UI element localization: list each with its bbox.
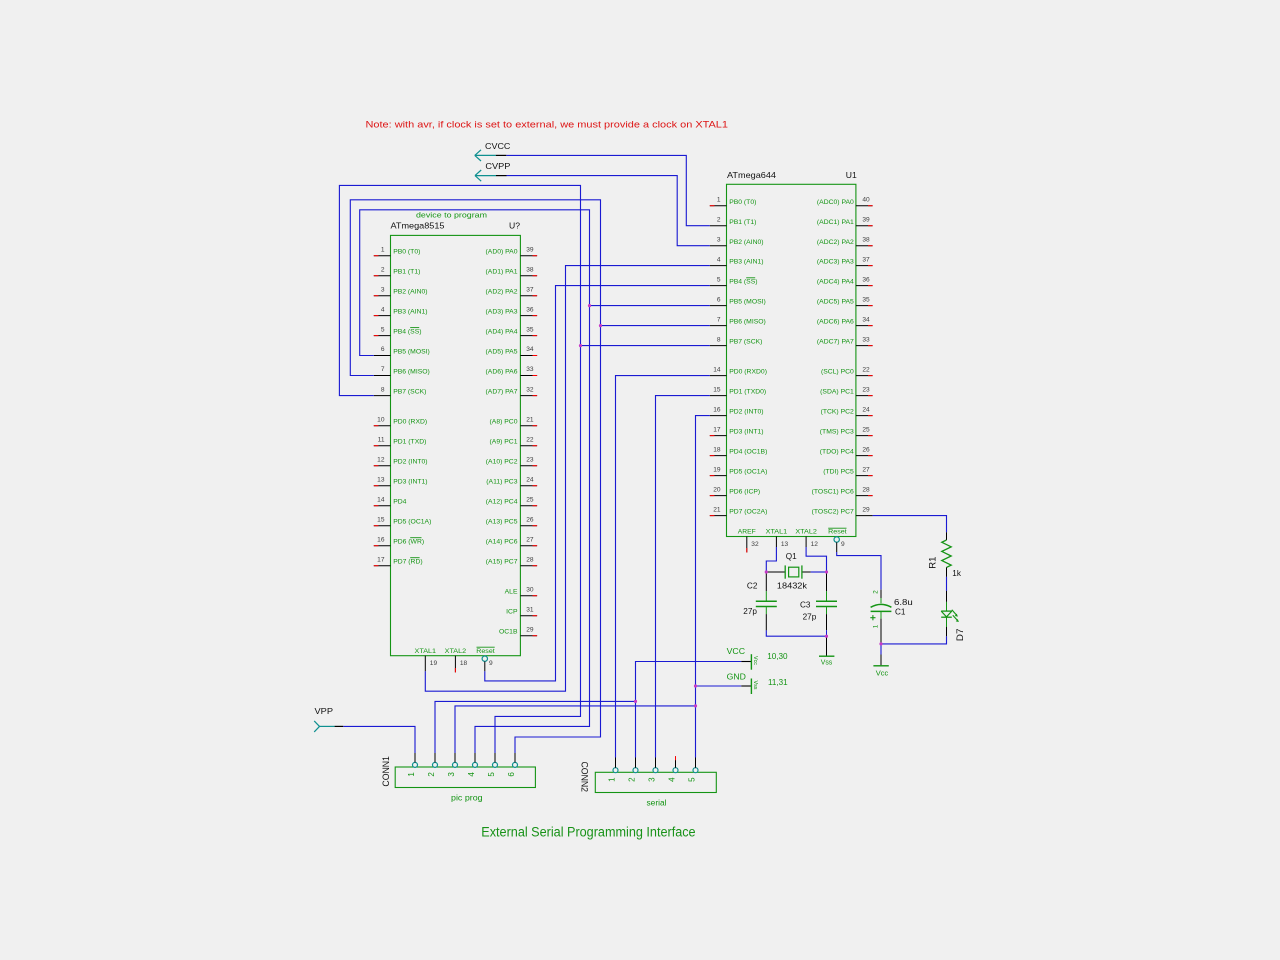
- svg-text:19: 19: [713, 466, 721, 473]
- svg-text:D7: D7: [955, 628, 965, 641]
- svg-text:XTAL2: XTAL2: [795, 529, 817, 536]
- svg-text:(ADC0) PA0: (ADC0) PA0: [817, 199, 854, 206]
- svg-text:(AD4) PA4: (AD4) PA4: [486, 329, 518, 336]
- svg-text:30: 30: [526, 586, 534, 593]
- svg-text:29: 29: [862, 506, 870, 513]
- svg-text:PB3 (AIN1): PB3 (AIN1): [729, 259, 763, 266]
- svg-text:32: 32: [526, 386, 534, 393]
- svg-text:ATmega8515: ATmega8515: [391, 221, 445, 231]
- svg-text:(AD2) PA2: (AD2) PA2: [486, 289, 518, 296]
- svg-text:28: 28: [862, 486, 870, 493]
- svg-text:PD3 (INT1): PD3 (INT1): [729, 429, 763, 436]
- svg-text:PB4 (SS): PB4 (SS): [393, 329, 421, 336]
- svg-text:2: 2: [873, 590, 880, 594]
- svg-text:4: 4: [667, 777, 676, 782]
- svg-text:12: 12: [377, 456, 385, 463]
- svg-text:4: 4: [717, 256, 721, 263]
- svg-text:36: 36: [526, 306, 534, 313]
- svg-text:8: 8: [717, 336, 721, 343]
- svg-text:PD0 (RXD): PD0 (RXD): [393, 419, 427, 426]
- svg-text:Q1: Q1: [786, 552, 797, 561]
- svg-text:23: 23: [862, 386, 870, 393]
- svg-text:PD5 (OC1A): PD5 (OC1A): [393, 519, 431, 526]
- svg-text:(AD3) PA3: (AD3) PA3: [486, 309, 518, 316]
- svg-text:5: 5: [381, 326, 385, 333]
- svg-text:22: 22: [862, 366, 870, 373]
- svg-text:Vss: Vss: [752, 681, 758, 690]
- svg-text:PB6 (MISO): PB6 (MISO): [729, 319, 766, 326]
- svg-text:27: 27: [862, 466, 870, 473]
- svg-text:27p: 27p: [803, 613, 817, 622]
- svg-text:13: 13: [377, 476, 385, 483]
- svg-text:(A11) PC3: (A11) PC3: [486, 479, 517, 486]
- svg-text:32: 32: [751, 541, 759, 548]
- svg-text:27p: 27p: [743, 607, 757, 616]
- svg-text:2: 2: [381, 266, 385, 273]
- svg-text:PB0 (T0): PB0 (T0): [729, 199, 756, 206]
- svg-text:(TDI) PC5: (TDI) PC5: [823, 469, 854, 476]
- svg-text:6: 6: [717, 296, 721, 303]
- svg-text:36: 36: [862, 276, 870, 283]
- svg-text:PB6 (MISO): PB6 (MISO): [393, 368, 430, 375]
- svg-text:(A15) PC7: (A15) PC7: [486, 559, 518, 566]
- svg-text:10: 10: [377, 416, 385, 423]
- svg-text:27: 27: [526, 536, 534, 543]
- svg-text:XTAL2: XTAL2: [445, 648, 467, 655]
- svg-text:26: 26: [862, 446, 870, 453]
- svg-text:(A12) PC4: (A12) PC4: [486, 499, 518, 506]
- svg-text:7: 7: [717, 316, 721, 323]
- svg-text:11,31: 11,31: [768, 678, 788, 687]
- svg-text:1: 1: [873, 624, 880, 628]
- svg-text:(ADC6) PA6: (ADC6) PA6: [817, 319, 854, 326]
- svg-text:18: 18: [460, 660, 468, 667]
- svg-text:1: 1: [381, 246, 385, 253]
- svg-text:3: 3: [717, 236, 721, 243]
- svg-text:ATmega644: ATmega644: [727, 170, 776, 180]
- svg-text:1k: 1k: [952, 569, 962, 578]
- svg-text:(ADC3) PA3: (ADC3) PA3: [817, 259, 854, 266]
- svg-text:Vcc: Vcc: [752, 656, 758, 665]
- svg-text:Vss: Vss: [821, 659, 833, 666]
- svg-text:PB4 (SS): PB4 (SS): [729, 279, 757, 286]
- svg-text:2: 2: [427, 772, 436, 777]
- svg-text:Vcc: Vcc: [876, 671, 889, 678]
- svg-text:4: 4: [467, 772, 476, 777]
- svg-text:ALE: ALE: [505, 589, 518, 596]
- svg-text:(ADC7) PA7: (ADC7) PA7: [817, 339, 854, 346]
- svg-text:16: 16: [713, 406, 721, 413]
- svg-text:C3: C3: [800, 601, 811, 610]
- svg-text:External Serial Programming In: External Serial Programming Interface: [481, 824, 695, 840]
- svg-text:21: 21: [526, 416, 534, 423]
- svg-text:CVCC: CVCC: [485, 141, 510, 151]
- svg-text:OC1B: OC1B: [499, 629, 518, 636]
- svg-text:18432k: 18432k: [777, 581, 808, 590]
- svg-text:PB7 (SCK): PB7 (SCK): [729, 339, 762, 346]
- svg-text:PD4: PD4: [393, 499, 406, 506]
- svg-text:17: 17: [713, 426, 721, 433]
- svg-text:34: 34: [862, 316, 870, 323]
- svg-text:12: 12: [811, 541, 819, 548]
- svg-text:(AD1) PA1: (AD1) PA1: [486, 269, 518, 276]
- svg-text:39: 39: [526, 246, 534, 253]
- svg-text:(ADC5) PA5: (ADC5) PA5: [817, 299, 854, 306]
- svg-text:14: 14: [713, 366, 721, 373]
- svg-text:18: 18: [713, 446, 721, 453]
- svg-text:PD7 (RD): PD7 (RD): [393, 559, 422, 566]
- svg-text:(A13) PC5: (A13) PC5: [486, 519, 518, 526]
- svg-text:10,30: 10,30: [767, 652, 788, 661]
- svg-text:40: 40: [862, 196, 870, 203]
- svg-text:33: 33: [526, 366, 534, 373]
- svg-text:pic prog: pic prog: [451, 794, 483, 803]
- svg-text:(ADC4) PA4: (ADC4) PA4: [817, 279, 854, 286]
- svg-text:33: 33: [862, 336, 870, 343]
- svg-text:PB2 (AIN0): PB2 (AIN0): [729, 239, 763, 246]
- svg-text:24: 24: [526, 476, 534, 483]
- svg-text:XTAL1: XTAL1: [415, 648, 437, 655]
- svg-text:(TOSC1) PC6: (TOSC1) PC6: [812, 489, 854, 496]
- svg-text:PB3 (AIN1): PB3 (AIN1): [393, 309, 427, 316]
- svg-text:4: 4: [381, 306, 385, 313]
- svg-text:(TDO) PC4: (TDO) PC4: [820, 449, 854, 456]
- svg-text:31: 31: [526, 606, 534, 613]
- svg-text:37: 37: [526, 286, 534, 293]
- svg-text:VPP: VPP: [315, 706, 334, 716]
- svg-text:3: 3: [381, 286, 385, 293]
- svg-text:PD5 (OC1A): PD5 (OC1A): [729, 469, 767, 476]
- svg-text:U?: U?: [509, 221, 520, 231]
- svg-text:(TCK) PC2: (TCK) PC2: [821, 409, 854, 416]
- svg-text:7: 7: [381, 366, 385, 373]
- svg-text:PD6 (WR): PD6 (WR): [393, 539, 424, 546]
- svg-text:CONN1: CONN1: [381, 756, 391, 787]
- svg-text:(TOSC2) PC7: (TOSC2) PC7: [812, 509, 854, 516]
- svg-text:37: 37: [862, 256, 870, 263]
- svg-text:8: 8: [381, 386, 385, 393]
- svg-text:PD6 (ICP): PD6 (ICP): [729, 489, 760, 496]
- svg-text:13: 13: [781, 541, 789, 548]
- svg-text:device to program: device to program: [416, 211, 487, 220]
- svg-text:(A8) PC0: (A8) PC0: [490, 419, 518, 426]
- svg-text:(A14) PC6: (A14) PC6: [486, 539, 518, 546]
- svg-text:16: 16: [377, 536, 385, 543]
- svg-text:serial: serial: [647, 798, 667, 807]
- svg-text:(A10) PC2: (A10) PC2: [486, 459, 518, 466]
- svg-text:28: 28: [526, 556, 534, 563]
- svg-text:35: 35: [862, 296, 870, 303]
- svg-text:1: 1: [407, 772, 416, 777]
- svg-text:PD7 (OC2A): PD7 (OC2A): [729, 509, 767, 516]
- svg-text:PB2 (AIN0): PB2 (AIN0): [393, 289, 427, 296]
- svg-text:(AD5) PA5: (AD5) PA5: [486, 348, 518, 355]
- svg-text:6.8u: 6.8u: [894, 598, 913, 607]
- svg-text:PB0 (T0): PB0 (T0): [393, 249, 420, 256]
- svg-text:23: 23: [526, 456, 534, 463]
- svg-text:Note: with avr, if clock is se: Note: with avr, if clock is set to exter…: [366, 120, 729, 130]
- svg-text:1: 1: [717, 196, 721, 203]
- svg-text:VCC: VCC: [727, 647, 746, 656]
- svg-text:XTAL1: XTAL1: [766, 529, 788, 536]
- svg-text:PD0 (RXD0): PD0 (RXD0): [729, 369, 767, 376]
- svg-text:3: 3: [647, 777, 656, 782]
- svg-text:ICP: ICP: [506, 609, 518, 616]
- svg-text:C2: C2: [747, 581, 758, 590]
- svg-text:CONN2: CONN2: [580, 762, 590, 793]
- svg-text:Reset: Reset: [476, 648, 495, 655]
- svg-text:38: 38: [862, 236, 870, 243]
- svg-text:(ADC2) PA2: (ADC2) PA2: [817, 239, 854, 246]
- svg-text:25: 25: [526, 496, 534, 503]
- svg-text:5: 5: [687, 777, 696, 782]
- svg-text:PB1 (T1): PB1 (T1): [393, 269, 420, 276]
- svg-text:(A9) PC1: (A9) PC1: [490, 439, 518, 446]
- svg-text:(AD7) PA7: (AD7) PA7: [486, 389, 518, 396]
- svg-text:PB5 (MOSI): PB5 (MOSI): [393, 348, 430, 355]
- svg-text:Reset: Reset: [828, 529, 847, 536]
- svg-text:24: 24: [862, 406, 870, 413]
- svg-text:29: 29: [526, 626, 534, 633]
- svg-text:9: 9: [489, 660, 493, 667]
- svg-text:C1: C1: [895, 607, 906, 616]
- svg-text:21: 21: [713, 506, 721, 513]
- svg-text:20: 20: [713, 486, 721, 493]
- svg-text:5: 5: [487, 772, 496, 777]
- svg-text:(SDA) PC1: (SDA) PC1: [820, 389, 854, 396]
- svg-text:U1: U1: [846, 170, 857, 180]
- svg-text:26: 26: [526, 516, 534, 523]
- svg-text:9: 9: [841, 541, 845, 548]
- svg-text:15: 15: [377, 516, 385, 523]
- svg-text:(SCL) PC0: (SCL) PC0: [821, 369, 854, 376]
- svg-text:PB7 (SCK): PB7 (SCK): [393, 389, 426, 396]
- svg-text:14: 14: [377, 496, 385, 503]
- svg-text:PD3 (INT1): PD3 (INT1): [393, 479, 427, 486]
- svg-text:AREF: AREF: [738, 529, 756, 536]
- svg-text:(AD0) PA0: (AD0) PA0: [486, 249, 518, 256]
- svg-text:PD2 (INT0): PD2 (INT0): [729, 409, 763, 416]
- svg-text:PD1 (TXD): PD1 (TXD): [393, 439, 426, 446]
- svg-text:2: 2: [627, 777, 636, 782]
- svg-text:5: 5: [717, 276, 721, 283]
- svg-text:PD1 (TXD0): PD1 (TXD0): [729, 389, 766, 396]
- svg-text:34: 34: [526, 346, 534, 353]
- svg-text:1: 1: [607, 777, 616, 782]
- svg-text:PB1 (T1): PB1 (T1): [729, 219, 756, 226]
- svg-text:11: 11: [378, 436, 385, 443]
- svg-text:38: 38: [526, 266, 534, 273]
- svg-text:15: 15: [713, 386, 721, 393]
- svg-text:PD2 (INT0): PD2 (INT0): [393, 459, 427, 466]
- svg-text:17: 17: [377, 556, 385, 563]
- svg-text:R1: R1: [927, 557, 937, 569]
- svg-text:(TMS) PC3: (TMS) PC3: [820, 429, 854, 436]
- svg-text:25: 25: [862, 426, 870, 433]
- svg-text:2: 2: [717, 216, 721, 223]
- svg-text:35: 35: [526, 326, 534, 333]
- svg-text:GND: GND: [727, 673, 746, 682]
- svg-text:22: 22: [526, 436, 534, 443]
- svg-text:(ADC1) PA1: (ADC1) PA1: [817, 219, 854, 226]
- svg-text:CVPP: CVPP: [485, 161, 510, 171]
- svg-text:6: 6: [381, 346, 385, 353]
- svg-text:3: 3: [447, 772, 456, 777]
- svg-text:39: 39: [862, 216, 870, 223]
- svg-text:(AD6) PA6: (AD6) PA6: [486, 368, 518, 375]
- svg-text:PB5 (MOSI): PB5 (MOSI): [729, 299, 766, 306]
- svg-text:6: 6: [507, 772, 516, 777]
- svg-text:PD4 (OC1B): PD4 (OC1B): [729, 449, 767, 456]
- svg-text:19: 19: [430, 660, 438, 667]
